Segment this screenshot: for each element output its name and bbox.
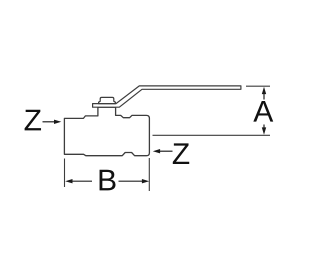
- arrow Z left: [43, 120, 62, 124]
- valve body: [64, 107, 149, 156]
- arrow A down: [262, 125, 266, 135]
- label A: [253, 101, 273, 122]
- extension line A top: [246, 85, 270, 87]
- dimension line B right with arrow: [119, 179, 150, 183]
- label Z right: [173, 143, 189, 164]
- extension line A bottom (centerline): [153, 134, 271, 136]
- arrow Z right: [153, 149, 173, 153]
- extension line B left: [64, 159, 66, 188]
- stem nut: [99, 97, 116, 103]
- label Z left: [25, 110, 41, 131]
- dimension line B left with arrow: [65, 179, 92, 183]
- handle lever: [93, 86, 241, 107]
- extension line B right: [148, 158, 150, 191]
- arrow A up: [262, 87, 266, 100]
- label B: [100, 170, 116, 191]
